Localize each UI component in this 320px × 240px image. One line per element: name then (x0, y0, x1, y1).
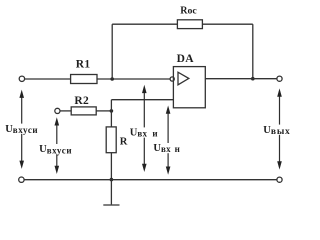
wire op-amp output (205, 78, 277, 80)
terminal bottom right (277, 177, 282, 182)
svg-text:R: R (120, 136, 128, 147)
voltage arrow Uвх н (166, 106, 171, 175)
resistor R1 (71, 75, 97, 84)
wire input1 to R1 (25, 78, 71, 80)
resistor R (106, 127, 116, 153)
svg-text:R2: R2 (74, 95, 89, 107)
node J1 feedback tap on inverting line (110, 77, 114, 81)
wire R2 to node J3 (96, 110, 111, 112)
label Uвых (262, 125, 290, 137)
wire bottom rail (24, 179, 277, 181)
terminal input 2 (55, 108, 60, 113)
svg-text:Rос: Rос (180, 5, 197, 16)
voltage arrow Uвхуси input 2 (55, 117, 60, 174)
terminal bottom left (19, 177, 24, 182)
svg-text:Uвхуси: Uвхуси (39, 144, 72, 155)
label Uвхуси input 1 (4, 124, 39, 135)
svg-text:Uвхн: Uвхн (153, 143, 179, 154)
label Uвх н (153, 143, 182, 154)
terminal input 1 (19, 76, 24, 81)
wire jog up from J3 (110, 100, 112, 111)
svg-text:R1: R1 (76, 58, 91, 70)
wire feedback top-right horizontal (202, 23, 252, 25)
op-amp DA body (173, 67, 205, 108)
svg-text:Uвых: Uвых (263, 125, 290, 137)
node J4 bottom rail / ground junction (110, 178, 114, 182)
wire J3 down to resistor R (110, 111, 112, 127)
svg-text:Uвхуси: Uвхуси (5, 124, 38, 135)
wire feedback right vertical (252, 24, 254, 78)
svg-text:DA: DA (177, 53, 195, 65)
voltage arrow Uвхуси input 1 (19, 90, 24, 169)
voltage arrow Uвых (277, 88, 282, 169)
wire to op-amp non-inverting input (111, 99, 173, 101)
op-amp inversion circle on inverting input (170, 77, 174, 81)
wire feedback left vertical (111, 24, 113, 79)
resistor Roc (177, 20, 202, 29)
wire input2 to R2 (60, 110, 71, 112)
terminal output (277, 76, 282, 81)
svg-text:Uвхи: Uвхи (130, 127, 158, 138)
wire down to ground (110, 180, 112, 205)
resistor R2 (71, 107, 96, 115)
wire R down to bottom rail (110, 153, 112, 180)
label Uвх и (129, 127, 159, 138)
label Uвхуси input 2 (38, 144, 74, 155)
wire feedback top-left horizontal (112, 23, 177, 25)
ground bar (103, 204, 119, 206)
node J2 feedback tap on output line (251, 77, 255, 81)
node J3 junction of R2, R and jog wire (110, 109, 114, 113)
voltage arrow Uвх и (142, 85, 147, 172)
op-amp amplifier triangle symbol (178, 72, 189, 85)
wire R1 to op-amp inverting input (97, 78, 170, 80)
